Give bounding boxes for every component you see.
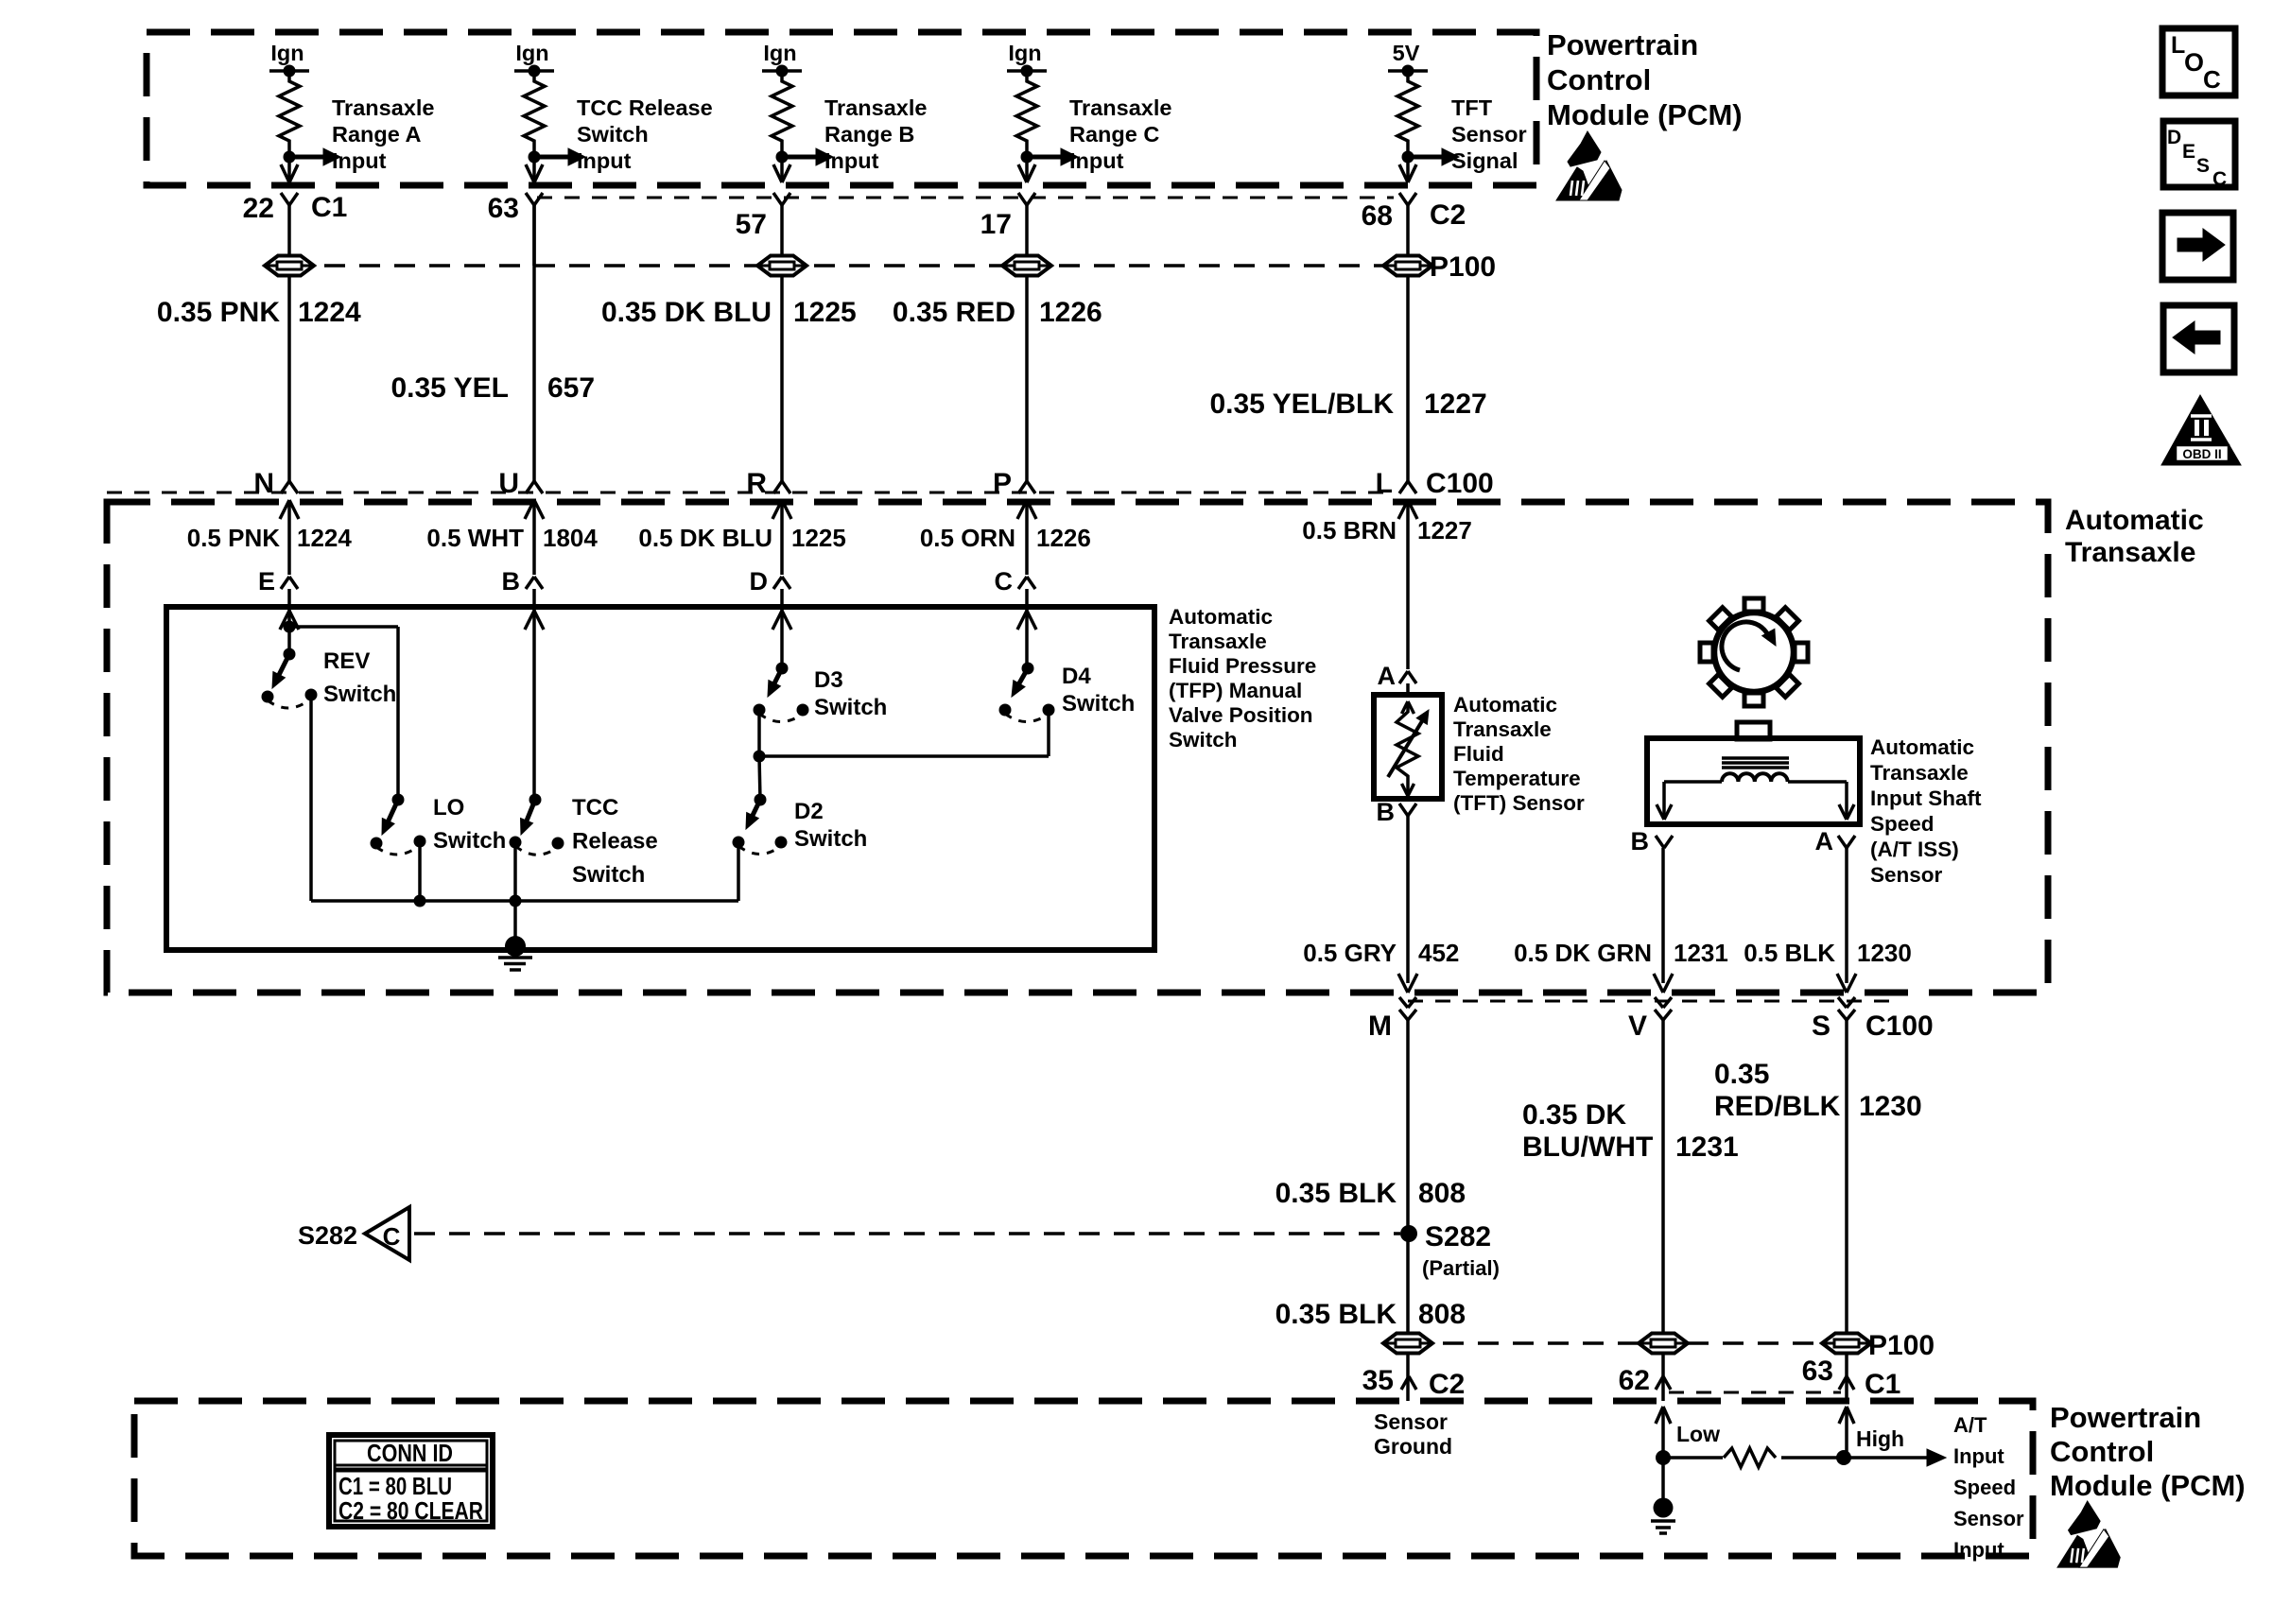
- svg-text:D2: D2: [794, 799, 824, 824]
- svg-text:E: E: [258, 567, 275, 596]
- svg-text:Input: Input: [1069, 148, 1124, 173]
- svg-text:Speed: Speed: [1870, 812, 1935, 836]
- svg-text:0.35 RED: 0.35 RED: [893, 297, 1015, 328]
- svg-text:Temperature: Temperature: [1453, 767, 1581, 790]
- ESD symbol (top): [1568, 131, 1601, 166]
- svg-text:1227: 1227: [1424, 389, 1487, 420]
- wire E C100 to TFP box: [287, 502, 291, 575]
- connector P100 grommet x=827: [757, 256, 807, 276]
- wire to pin col1: [287, 157, 291, 180]
- svg-text:Ign: Ign: [763, 41, 796, 65]
- svg-text:0.5 BRN: 0.5 BRN: [1302, 516, 1397, 544]
- svg-text:(A/T ISS): (A/T ISS): [1870, 838, 1959, 861]
- svg-text:B: B: [1631, 827, 1650, 855]
- svg-text:35: 35: [1362, 1365, 1394, 1396]
- svg-text:P: P: [993, 468, 1012, 499]
- resistor speed sensor input: [1724, 1448, 1776, 1467]
- svg-text:Input: Input: [332, 148, 387, 173]
- C1 connector dashed line (bottom): [1669, 1391, 1841, 1394]
- node low junction: [1656, 1450, 1671, 1465]
- svg-text:BLU/WHT: BLU/WHT: [1522, 1132, 1653, 1163]
- wire to resistor: [1663, 1456, 1723, 1460]
- wire REV contact down: [309, 700, 313, 901]
- svg-text:A: A: [1378, 662, 1397, 690]
- connector P100 grommet bottom x=1953: [1822, 1334, 1871, 1354]
- wire D into box: [780, 589, 784, 607]
- svg-text:Input: Input: [824, 148, 879, 173]
- svg-text:L: L: [1376, 468, 1393, 499]
- node branch E to LO: [284, 621, 296, 633]
- wire to A/T input arrow: [1844, 1456, 1927, 1460]
- svg-text:V: V: [1628, 1011, 1647, 1042]
- svg-text:C: C: [2212, 168, 2227, 190]
- wire col3 below pin: [780, 205, 784, 266]
- svg-text:E: E: [2182, 141, 2195, 163]
- wire TFT B down: [1406, 816, 1410, 983]
- wire B into box: [532, 589, 536, 607]
- svg-text:Transaxle: Transaxle: [332, 95, 434, 120]
- wire C inside box: [1025, 607, 1029, 668]
- svg-text:Signal: Signal: [1451, 148, 1518, 173]
- node junction col3: [780, 151, 784, 157]
- svg-text:0.35 BLK: 0.35 BLK: [1275, 1178, 1397, 1209]
- svg-text:P100: P100: [1868, 1330, 1935, 1361]
- node bus LO junction: [414, 895, 426, 907]
- pin C terminal: [1018, 577, 1027, 589]
- switch D4: [1022, 663, 1034, 675]
- svg-text:0.35: 0.35: [1714, 1059, 1769, 1090]
- svg-text:C100: C100: [1426, 468, 1494, 499]
- DESC icon box: [2163, 121, 2235, 187]
- svg-text:0.5 PNK: 0.5 PNK: [187, 524, 280, 552]
- ISS sensor box: [1647, 738, 1860, 824]
- pin B terminal TFT: [1399, 803, 1408, 816]
- wire V down to P100: [1661, 1020, 1665, 1334]
- svg-text:0.35 YEL/BLK: 0.35 YEL/BLK: [1209, 389, 1394, 420]
- wire x=827 P100 to C100: [780, 275, 784, 482]
- svg-text:C2: C2: [1430, 199, 1466, 231]
- PCM module box (bottom): [134, 1401, 2033, 1556]
- wire LO contact down: [418, 847, 422, 901]
- resistor pull-up col4: [1016, 71, 1037, 151]
- wire Ign stub col2: [514, 69, 554, 73]
- svg-text:Transaxle: Transaxle: [824, 95, 927, 120]
- switch D3: [776, 663, 789, 675]
- wire ISS B down: [1661, 848, 1665, 983]
- wire L C100 to TFT sensor: [1406, 502, 1410, 669]
- wire col5 below pin: [1406, 205, 1410, 266]
- pin D terminal: [773, 577, 782, 589]
- svg-text:Switch: Switch: [577, 122, 649, 147]
- svg-text:B: B: [1377, 798, 1396, 826]
- svg-text:1226: 1226: [1039, 297, 1102, 328]
- wire E into box: [287, 589, 291, 607]
- svg-text:M: M: [1368, 1011, 1392, 1042]
- svg-text:Powertrain: Powertrain: [1547, 28, 1698, 61]
- pin 62 terminal: [1656, 1376, 1663, 1390]
- svg-text:Powertrain: Powertrain: [2050, 1401, 2201, 1434]
- C100 bottom connector dashed line: [1408, 1000, 1891, 1003]
- wire A to TFT box: [1406, 683, 1410, 695]
- pin A terminal TFT: [1399, 671, 1408, 683]
- svg-text:Sensor: Sensor: [1374, 1409, 1448, 1434]
- svg-text:RED/BLK: RED/BLK: [1714, 1091, 1841, 1122]
- node bus TCC junction: [510, 895, 522, 907]
- svg-text:Module (PCM): Module (PCM): [2050, 1469, 2246, 1502]
- svg-text:0.5 GRY: 0.5 GRY: [1303, 939, 1397, 967]
- pin M crossing: [1398, 974, 1408, 993]
- connector P100 grommet bottom x=1759: [1639, 1334, 1688, 1354]
- C100 connector dashed line: [107, 492, 1394, 494]
- switch TCC release: [529, 794, 542, 806]
- wire Ign stub col1: [269, 69, 309, 73]
- svg-text:Automatic: Automatic: [1169, 605, 1273, 629]
- svg-text:S282: S282: [1425, 1221, 1491, 1253]
- pin 63 terminal: [1839, 1376, 1847, 1390]
- svg-text:S: S: [1812, 1011, 1831, 1042]
- svg-text:D: D: [2167, 127, 2181, 148]
- svg-text:Switch: Switch: [433, 828, 506, 854]
- ISS coil: [1722, 773, 1788, 782]
- TFT sensor box: [1374, 695, 1442, 799]
- wire 5V stub col5: [1388, 69, 1428, 73]
- svg-text:Input: Input: [1953, 1444, 2004, 1468]
- ISS gear icon: [1714, 613, 1794, 692]
- wire x=306 P100 to C100: [287, 275, 291, 482]
- wire to pin col3: [780, 157, 784, 180]
- svg-text:1224: 1224: [297, 524, 352, 552]
- svg-text:Range A: Range A: [332, 122, 421, 147]
- pin terminal col1: [281, 193, 289, 205]
- svg-text:1227: 1227: [1417, 516, 1472, 544]
- svg-text:Input: Input: [577, 148, 632, 173]
- wire TCC contact down: [513, 848, 517, 901]
- svg-text:D4: D4: [1062, 664, 1091, 689]
- svg-text:22: 22: [243, 193, 274, 224]
- pin terminal col5: [1399, 193, 1408, 205]
- svg-text:LO: LO: [433, 795, 464, 821]
- svg-text:Switch: Switch: [1169, 728, 1238, 752]
- svg-text:1225: 1225: [791, 524, 846, 552]
- svg-text:Ign: Ign: [1008, 41, 1041, 65]
- wire S down to P100: [1845, 1020, 1848, 1334]
- wire 63 inside PCM: [1847, 1407, 1854, 1424]
- svg-text:17: 17: [980, 209, 1012, 240]
- connector P100 grommet x=1489: [1383, 256, 1432, 276]
- wire D3 contact down: [757, 716, 761, 756]
- svg-text:Range C: Range C: [1069, 122, 1159, 147]
- resistor pull-up col2: [524, 71, 545, 151]
- svg-text:62: 62: [1619, 1365, 1650, 1396]
- wire to pin col2: [532, 157, 536, 180]
- svg-text:Transaxle: Transaxle: [1453, 717, 1552, 741]
- wire low to ground: [1661, 1458, 1665, 1498]
- svg-text:C1: C1: [1865, 1369, 1900, 1400]
- svg-text:63: 63: [1802, 1356, 1833, 1387]
- svg-text:57: 57: [736, 209, 767, 240]
- svg-text:TCC Release: TCC Release: [577, 95, 713, 120]
- pin A terminal ISS: [1838, 836, 1847, 848]
- svg-text:B: B: [502, 567, 521, 596]
- OBD II triangle icon: [2161, 395, 2241, 465]
- wire E inside box: [287, 607, 291, 654]
- pin L C100 crossing: [1399, 481, 1408, 493]
- wire D C100 to TFP box: [780, 502, 784, 575]
- wire 62 to PCM: [1661, 1353, 1665, 1401]
- svg-text:0.35 DK: 0.35 DK: [1522, 1099, 1626, 1131]
- wire junction to D2: [759, 756, 760, 800]
- svg-text:C: C: [2203, 65, 2221, 94]
- svg-text:A/T: A/T: [1953, 1413, 1987, 1437]
- svg-text:1804: 1804: [543, 524, 598, 552]
- svg-text:Automatic: Automatic: [1870, 735, 1974, 759]
- svg-text:C: C: [995, 567, 1014, 596]
- node high junction: [1836, 1450, 1851, 1465]
- svg-text:Transaxle: Transaxle: [1169, 630, 1267, 653]
- svg-text:Release: Release: [572, 829, 658, 855]
- pin N C100 crossing: [281, 481, 289, 493]
- switch LO: [392, 794, 405, 806]
- wire bus to ground: [513, 901, 517, 941]
- svg-text:Control: Control: [1547, 63, 1651, 96]
- svg-text:N: N: [253, 468, 274, 499]
- pin 35 terminal: [1401, 1376, 1409, 1390]
- svg-text:0.35 BLK: 0.35 BLK: [1275, 1299, 1397, 1330]
- wire to pin col4: [1025, 157, 1029, 180]
- svg-text:C100: C100: [1865, 1011, 1934, 1042]
- connector P100 grommet x=306: [265, 256, 314, 276]
- back arrow icon box: [2163, 305, 2234, 372]
- back arrow icon: [2173, 321, 2220, 354]
- signal tap arrow col5: [1408, 155, 1442, 160]
- wire col4 below pin: [1025, 205, 1029, 266]
- wire C C100 to TFP box: [1025, 502, 1029, 575]
- svg-text:Ign: Ign: [515, 41, 548, 65]
- svg-text:Fluid Pressure: Fluid Pressure: [1169, 654, 1316, 678]
- switch D2: [755, 794, 767, 806]
- svg-text:0.5 WHT: 0.5 WHT: [426, 524, 524, 552]
- svg-text:0.5 DK BLU: 0.5 DK BLU: [638, 524, 772, 552]
- svg-text:808: 808: [1418, 1299, 1466, 1330]
- svg-text:C: C: [383, 1222, 401, 1251]
- svg-text:Ground: Ground: [1374, 1434, 1452, 1459]
- wire to pin col5: [1406, 157, 1410, 180]
- svg-text:TFT: TFT: [1451, 95, 1493, 120]
- svg-text:S: S: [2196, 155, 2210, 177]
- svg-text:63: 63: [488, 193, 519, 224]
- Automatic Transaxle dashed box: [107, 502, 2048, 993]
- svg-text:Range B: Range B: [824, 122, 914, 147]
- resistor pull-up col3: [772, 71, 792, 151]
- svg-text:5V: 5V: [1393, 41, 1420, 65]
- svg-text:R: R: [746, 468, 767, 499]
- svg-text:0.5 DK GRN: 0.5 DK GRN: [1514, 939, 1652, 967]
- pin V crossing: [1654, 974, 1663, 993]
- pin P C100 crossing: [1018, 481, 1027, 493]
- svg-text:1226: 1226: [1036, 524, 1091, 552]
- svg-text:D3: D3: [814, 667, 843, 693]
- pin terminal col2: [526, 193, 534, 205]
- ISS sensor mount tab: [1737, 722, 1770, 739]
- wire 35 to PCM: [1406, 1353, 1410, 1401]
- node S282 splice: [1400, 1225, 1417, 1242]
- svg-text:C1: C1: [311, 192, 347, 223]
- signal tap arrow col1: [289, 155, 323, 160]
- svg-text:TCC: TCC: [572, 795, 618, 821]
- svg-text:Switch: Switch: [794, 826, 867, 852]
- ISS coil lead A: [1788, 780, 1847, 784]
- svg-text:68: 68: [1362, 200, 1393, 232]
- switch REV: [284, 648, 296, 661]
- wire B C100 to TFP box: [532, 502, 536, 575]
- wire ground bus: [311, 899, 738, 903]
- svg-text:A: A: [1815, 827, 1834, 855]
- svg-text:808: 808: [1418, 1178, 1466, 1209]
- wire resistor to high: [1781, 1456, 1844, 1460]
- node junction col2: [532, 151, 536, 157]
- svg-text:0.5 ORN: 0.5 ORN: [920, 524, 1015, 552]
- pin S crossing: [1837, 974, 1847, 993]
- wire col2 below pin: [532, 205, 536, 266]
- node junction col1: [287, 151, 291, 157]
- ESD symbol (bottom): [2069, 1501, 2101, 1535]
- svg-text:Switch: Switch: [323, 682, 396, 707]
- svg-text:0.5 BLK: 0.5 BLK: [1744, 939, 1835, 967]
- ground symbol PCM: [1654, 1498, 1674, 1518]
- signal tap arrow col4: [1027, 155, 1061, 160]
- P100 pass-through dashed line (bottom): [1408, 1341, 1847, 1345]
- ISS coil lead B: [1664, 780, 1722, 784]
- pin U C100 crossing: [526, 481, 534, 493]
- ground symbol TFP: [505, 936, 526, 957]
- connector P100 grommet x=1086: [1002, 256, 1051, 276]
- svg-text:Fluid: Fluid: [1453, 742, 1504, 766]
- svg-text:S282: S282: [298, 1221, 357, 1250]
- svg-text:Valve Position: Valve Position: [1169, 703, 1313, 727]
- forward arrow icon box: [2162, 213, 2233, 280]
- pin terminal col4: [1018, 193, 1027, 205]
- svg-text:Switch: Switch: [814, 695, 887, 720]
- node junction col5: [1406, 151, 1410, 157]
- TFP manual valve position switch box: [166, 607, 1154, 950]
- svg-text:Switch: Switch: [1062, 691, 1135, 717]
- signal tap arrow col3: [782, 155, 816, 160]
- svg-text:D: D: [750, 567, 769, 596]
- wire D2 contact down: [737, 848, 740, 901]
- C1/C2 connector dashed line (top): [537, 197, 1394, 199]
- node D3/D2 junction: [754, 751, 766, 763]
- connector P100 grommet bottom x=1489: [1383, 1334, 1432, 1354]
- svg-text:Automatic: Automatic: [1453, 693, 1557, 717]
- TFT thermistor symbol: [1408, 701, 1414, 714]
- svg-text:Control: Control: [2050, 1435, 2154, 1468]
- svg-text:Switch: Switch: [572, 862, 645, 888]
- svg-text:Transaxle: Transaxle: [1069, 95, 1171, 120]
- svg-text:Sensor: Sensor: [1870, 863, 1943, 887]
- S282 splice dashed line: [414, 1232, 1400, 1235]
- wire ISS A down: [1845, 848, 1848, 983]
- svg-text:REV: REV: [323, 648, 370, 674]
- S282 off-page triangle: [365, 1207, 409, 1260]
- svg-text:P100: P100: [1430, 251, 1496, 283]
- svg-text:0.35 PNK: 0.35 PNK: [157, 297, 280, 328]
- svg-text:Low: Low: [1676, 1422, 1720, 1446]
- wire 62 inside PCM: [1663, 1407, 1671, 1424]
- wire x=1489 P100 to C100: [1406, 275, 1410, 482]
- svg-text:1230: 1230: [1857, 939, 1912, 967]
- svg-text:Sensor: Sensor: [1451, 122, 1527, 147]
- svg-text:Automatic: Automatic: [2065, 505, 2204, 536]
- P100 pass-through dashed line (top): [289, 264, 1408, 268]
- LOC icon box: [2162, 28, 2235, 95]
- svg-text:(TFP) Manual: (TFP) Manual: [1169, 679, 1302, 702]
- svg-text:U: U: [498, 468, 519, 499]
- svg-text:Ign: Ign: [270, 41, 304, 65]
- wire col1 below pin: [287, 205, 291, 266]
- ISS core lines: [1722, 756, 1789, 760]
- svg-text:OBD II: OBD II: [2182, 447, 2221, 461]
- svg-text:C2 = 80 CLEAR: C2 = 80 CLEAR: [338, 1496, 483, 1525]
- pin B terminal: [526, 577, 534, 589]
- forward arrow icon: [2178, 229, 2225, 261]
- svg-text:Input: Input: [1953, 1538, 2004, 1562]
- wire Ign stub col4: [1007, 69, 1047, 73]
- wire 63 to PCM: [1845, 1353, 1848, 1401]
- svg-text:CONN ID: CONN ID: [367, 1439, 453, 1467]
- svg-text:Transaxle: Transaxle: [1870, 761, 1969, 785]
- svg-text:Module (PCM): Module (PCM): [1547, 98, 1743, 131]
- svg-text:High: High: [1856, 1426, 1904, 1451]
- resistor pull-up col5: [1397, 71, 1418, 151]
- svg-text:Speed: Speed: [1953, 1476, 2016, 1499]
- svg-text:Transaxle: Transaxle: [2065, 537, 2195, 568]
- signal tap arrow col2: [534, 155, 568, 160]
- svg-text:0.35 YEL: 0.35 YEL: [390, 372, 509, 404]
- wire Ign stub col3: [762, 69, 802, 73]
- svg-text:Sensor: Sensor: [1953, 1507, 2024, 1530]
- PCM module box (top): [147, 32, 1536, 185]
- wire D inside box: [780, 607, 784, 668]
- pin B terminal ISS: [1656, 836, 1664, 848]
- CONN ID box: [329, 1435, 493, 1527]
- svg-text:657: 657: [547, 372, 595, 404]
- svg-text:452: 452: [1418, 939, 1459, 967]
- pin terminal col3: [773, 193, 782, 205]
- resistor pull-up col1: [279, 71, 300, 151]
- svg-text:(Partial): (Partial): [1422, 1256, 1500, 1280]
- wire C into box: [1025, 589, 1029, 607]
- svg-text:1224: 1224: [298, 297, 361, 328]
- svg-text:O: O: [2184, 48, 2204, 77]
- svg-text:1225: 1225: [793, 297, 857, 328]
- node junction col4: [1025, 151, 1029, 157]
- svg-text:L: L: [2171, 32, 2185, 59]
- svg-text:0.35 DK BLU: 0.35 DK BLU: [601, 297, 772, 328]
- svg-text:Input Shaft: Input Shaft: [1870, 786, 1982, 810]
- svg-text:C2: C2: [1429, 1369, 1465, 1400]
- svg-text:1230: 1230: [1859, 1091, 1922, 1122]
- wire x=565 P100 to C100: [532, 205, 536, 482]
- pin E terminal: [281, 577, 289, 589]
- svg-text:(TFT) Sensor: (TFT) Sensor: [1453, 791, 1585, 815]
- wire D3 junction to D4: [759, 754, 1049, 758]
- wire x=1086 P100 to C100: [1025, 275, 1029, 482]
- pin R C100 crossing: [773, 481, 782, 493]
- svg-text:1231: 1231: [1675, 1132, 1739, 1163]
- wire B inside box: [532, 607, 536, 800]
- wire M down to P100: [1406, 1020, 1410, 1334]
- svg-text:1231: 1231: [1674, 939, 1728, 967]
